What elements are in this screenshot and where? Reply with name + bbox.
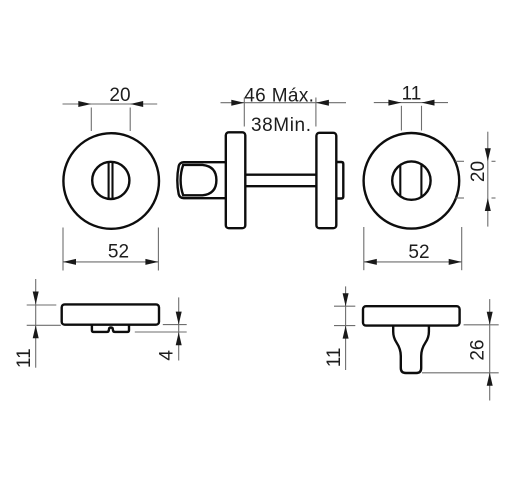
dim 52 right: dimension line xyxy=(364,261,462,263)
dim 20 top-left: extension line R xyxy=(129,108,131,132)
arrow dim11TR right xyxy=(422,100,435,106)
arrow dim20R top xyxy=(485,148,491,161)
dim 11 top-right: extension line R xyxy=(421,106,423,131)
dim 26: dimension line xyxy=(489,299,491,400)
inner circle left rosette (coin slot boss) xyxy=(92,162,129,199)
dim 11 bottom-left: extension dash top xyxy=(27,304,57,306)
dim 20 right: extension dashes top xyxy=(456,160,465,162)
svg-text:11: 11 xyxy=(14,348,35,368)
arrow dim52L right xyxy=(145,259,158,265)
dim 46/38: extension line R xyxy=(315,98,317,127)
svg-text:11: 11 xyxy=(402,84,422,105)
dim 11 top-right: dimension line xyxy=(374,102,448,104)
dim 26 / stem: extension line bottom xyxy=(422,372,499,374)
dim 20 right: dimension line xyxy=(487,132,489,227)
dim 4: extension dash top xyxy=(163,324,187,326)
thumbturn knob outer (side view) xyxy=(177,162,226,198)
spindle nub right xyxy=(336,162,343,199)
dim 26: extension line top xyxy=(464,324,499,326)
right rosette (side view) xyxy=(316,133,336,228)
arrow dim11TR left xyxy=(388,100,401,106)
dim 11 bottom-left: extension dash bottom xyxy=(27,324,61,326)
dim 52 left: extension line L xyxy=(62,228,64,271)
arrow dim4 top xyxy=(176,312,182,325)
arrow dim11BL top xyxy=(33,292,39,305)
outer circle left rosette xyxy=(63,133,159,229)
dim 52 right: extension line L xyxy=(363,227,365,270)
dim 46/38: extension line L xyxy=(243,98,245,127)
arrow dim52L left xyxy=(63,259,76,265)
dim 11 top-right: extension line L xyxy=(400,106,402,131)
bottom-right rosette profile xyxy=(363,306,460,325)
outer circle right rosette xyxy=(364,133,460,229)
arrow dim20R bottom xyxy=(485,198,491,211)
arrow dim26 top xyxy=(487,312,493,325)
arrow dim11BR top xyxy=(343,293,349,306)
dim 20 right: extension dashes bottom xyxy=(456,197,465,199)
svg-text:20: 20 xyxy=(468,161,489,182)
dim 20 top-left: extension line L xyxy=(90,108,92,132)
arrow dim52R left xyxy=(364,259,377,265)
svg-text:52: 52 xyxy=(108,242,129,263)
svg-text:38Min.: 38Min. xyxy=(251,115,312,136)
bottom-left fixing tab with notch xyxy=(92,325,129,332)
svg-text:4: 4 xyxy=(156,350,177,361)
left rosette (side view) xyxy=(226,132,246,228)
dim 4: extension dash bottom xyxy=(135,331,187,333)
arrow dim11BL bottom xyxy=(33,325,39,338)
thumbturn knob inner cap xyxy=(181,165,217,195)
dim 4: dimension line xyxy=(178,297,180,360)
arrow dim46 right xyxy=(316,100,329,106)
arrow dim20TL right xyxy=(130,101,143,107)
svg-text:46 Máx.: 46 Máx. xyxy=(244,85,314,106)
arrow dim11BR bottom xyxy=(343,326,349,339)
arrow dim52R right xyxy=(449,259,462,265)
arrow dim4 bottom xyxy=(176,332,182,345)
coin slot line 1 xyxy=(108,162,110,198)
dim 46/38: dimension line xyxy=(221,102,347,104)
dim 11 bottom-right: extension dash top xyxy=(334,305,355,307)
inner circle right rosette (thumbturn boss) xyxy=(392,161,430,199)
dim 11 bottom-left: dimension line xyxy=(35,279,37,368)
arrow dim20TL left xyxy=(78,101,91,107)
thumbturn bar left line xyxy=(399,165,401,197)
svg-text:11: 11 xyxy=(324,348,345,368)
svg-text:26: 26 xyxy=(468,340,489,361)
dim 52 left: dimension line xyxy=(63,261,158,263)
bottom-right thumbturn stem xyxy=(393,326,429,373)
thumbturn bar right line xyxy=(420,164,422,197)
svg-text:20: 20 xyxy=(109,85,130,106)
dim 52 left: extension line R xyxy=(157,228,159,271)
dim 20 top-left: dimension line xyxy=(63,103,158,105)
arrow dim46 left xyxy=(231,100,244,106)
svg-text:52: 52 xyxy=(408,242,429,263)
dim 52 right: extension line R xyxy=(461,227,463,270)
dim 11 bottom-right: dimension line xyxy=(345,286,347,370)
bottom-left rosette profile xyxy=(62,304,159,324)
dim 11 bottom-right: extension dash bottom xyxy=(334,325,355,327)
spindle top line xyxy=(245,173,316,175)
arrow dim26 bottom xyxy=(487,373,493,386)
spindle bottom line xyxy=(245,185,316,187)
coin slot line 2 xyxy=(111,162,113,198)
